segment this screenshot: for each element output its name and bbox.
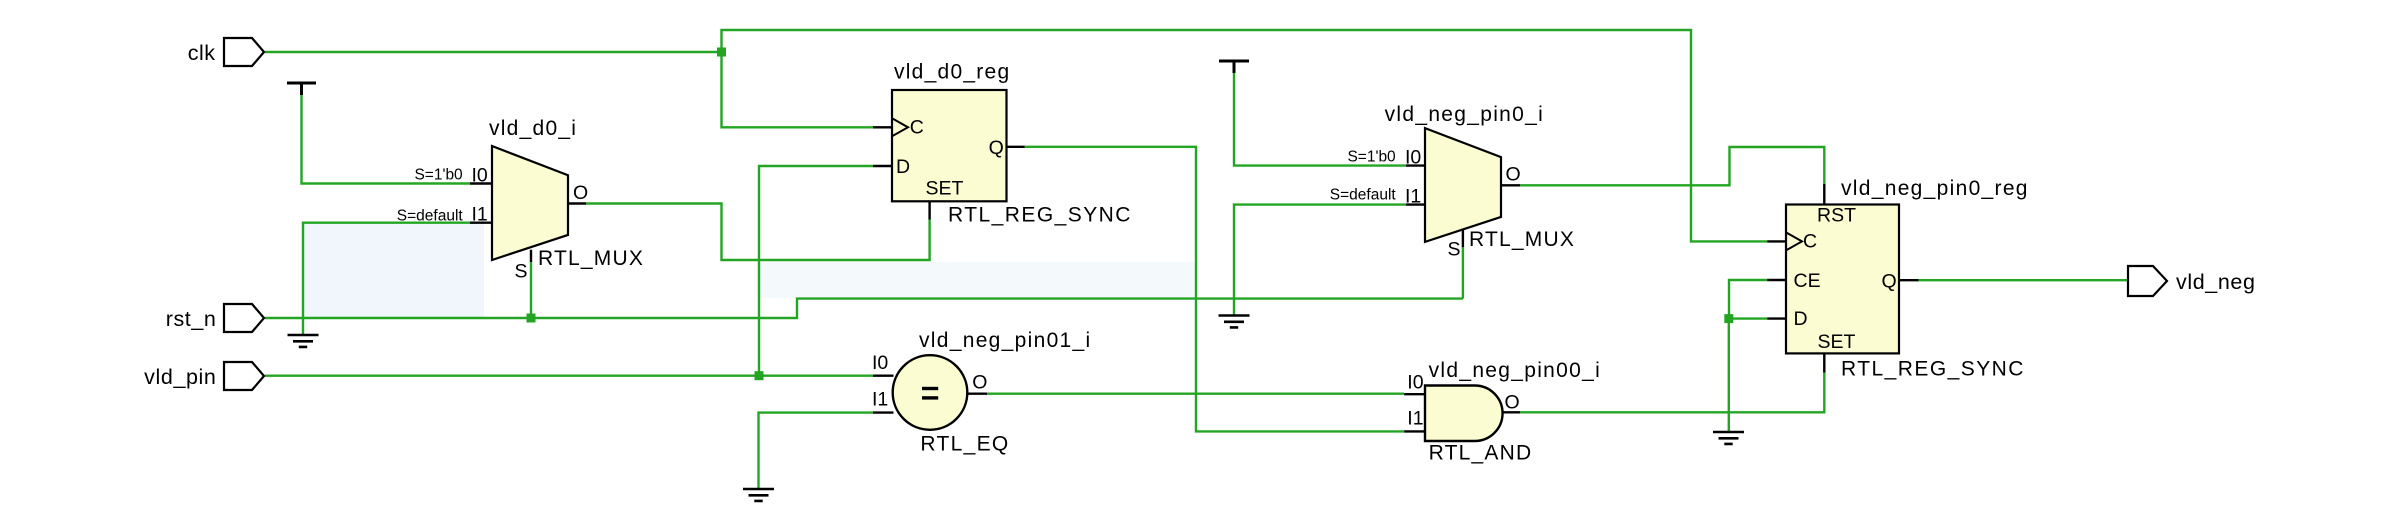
wire: VCC const to mux1 I0 <box>302 95 471 184</box>
svg-text:O: O <box>573 182 588 204</box>
svg-text:Q: Q <box>989 137 1004 159</box>
register U2 clock triangle <box>892 118 908 136</box>
ground symbol below reg2 D junction <box>1713 432 1744 444</box>
wire: AND O to reg2 SET <box>1520 373 1824 413</box>
svg-text:O: O <box>1505 392 1520 414</box>
svg-text:vld_neg_pin01_i: vld_neg_pin01_i <box>919 329 1091 352</box>
junction on clk net at port fanout <box>717 48 726 57</box>
svg-text:I0: I0 <box>472 165 488 187</box>
register U2 vld_d0_reg body <box>892 90 1007 201</box>
register U2 pin stubs <box>873 127 1025 219</box>
svg-text:S=1'b0: S=1'b0 <box>414 167 467 184</box>
svg-text:D: D <box>1794 308 1808 330</box>
mux U1 vld_d0_i body <box>492 146 568 260</box>
svg-text:D: D <box>896 156 910 178</box>
svg-text:vld_pin: vld_pin <box>144 365 216 389</box>
svg-text:S=default: S=default <box>1330 186 1400 203</box>
register U6 pin stubs <box>1767 184 1918 373</box>
background tint patch middle <box>760 262 1195 298</box>
svg-text:I1: I1 <box>1405 186 1421 208</box>
svg-text:RTL_AND: RTL_AND <box>1429 442 1533 465</box>
wire: rst_n net <box>265 247 1463 318</box>
svg-text:I0: I0 <box>1405 147 1421 169</box>
wire: reg2 CE/D to GND <box>1729 280 1768 431</box>
eq gate U3 pin stubs <box>873 376 987 413</box>
svg-text:rst_n: rst_n <box>166 307 217 331</box>
ground symbol below EQ I1 <box>743 489 774 501</box>
mux U5 vld_neg_pin0_i body <box>1425 128 1501 242</box>
svg-text:I0: I0 <box>1407 372 1423 394</box>
svg-text:CE: CE <box>1794 270 1821 292</box>
mux U1 pin stubs <box>470 184 586 263</box>
svg-text:I1: I1 <box>472 204 488 226</box>
junction rst_n to mux1 S <box>527 314 536 323</box>
svg-text:clk: clk <box>188 41 216 65</box>
output port vld_neg <box>2128 266 2256 296</box>
ground symbol below rst_n <box>288 335 319 347</box>
svg-text:I1: I1 <box>1407 408 1423 430</box>
svg-text:O: O <box>1506 164 1521 186</box>
wire: GND const to mux1 I1 <box>303 223 470 334</box>
svg-text:C: C <box>1803 231 1817 253</box>
and gate U4 pin stubs <box>1404 394 1520 431</box>
wire: mux1 O to reg1 SET <box>586 204 930 261</box>
svg-text:I1: I1 <box>872 388 888 410</box>
svg-text:vld_neg_pin00_i: vld_neg_pin00_i <box>1429 359 1601 382</box>
svg-text:S: S <box>515 261 528 283</box>
svg-text:RTL_EQ: RTL_EQ <box>920 432 1009 455</box>
register U6 clock triangle <box>1786 232 1802 250</box>
wire: GND const to mux2 I1 <box>1234 205 1406 315</box>
svg-text:vld_neg_pin0_i: vld_neg_pin0_i <box>1385 103 1545 126</box>
svg-text:vld_neg_pin0_reg: vld_neg_pin0_reg <box>1841 177 2029 200</box>
input port rst_n <box>166 304 264 332</box>
svg-text:S=1'b0: S=1'b0 <box>1347 149 1400 166</box>
svg-text:RTL_MUX: RTL_MUX <box>1469 228 1575 251</box>
power symbol VCC (T-bar) middle <box>1219 61 1249 73</box>
svg-text:Q: Q <box>1882 270 1897 292</box>
svg-text:SET: SET <box>1818 331 1856 353</box>
svg-text:RTL_REG_SYNC: RTL_REG_SYNC <box>1841 357 2025 380</box>
and gate U4 vld_neg_pin00_i body <box>1425 386 1503 442</box>
register U6 vld_neg_pin0_reg body <box>1786 205 1899 354</box>
wire: GND const to EQ I1 <box>759 413 874 488</box>
input port clk <box>188 38 264 66</box>
wire: VCC const to mux2 I0 <box>1234 73 1406 166</box>
wire: EQ O to AND I0 <box>987 393 1404 395</box>
junction reg2 CE/D node <box>1724 314 1733 323</box>
svg-text:RST: RST <box>1817 205 1856 227</box>
svg-text:C: C <box>910 117 924 139</box>
junction vld_pin to reg1 D <box>755 371 764 380</box>
background tint patch left <box>304 224 484 318</box>
mux U5 pin stubs <box>1406 166 1520 248</box>
eq gate U3 vld_neg_pin01_i body <box>893 355 968 430</box>
wire: reg2 Q to vld_neg port <box>1919 279 2129 281</box>
eq gate U3 equals sign <box>922 387 938 400</box>
power symbol VCC (T-bar) top-left <box>287 83 316 95</box>
svg-text:RTL_MUX: RTL_MUX <box>538 247 644 270</box>
wire: reg1 Q to AND I1 <box>1025 147 1405 432</box>
svg-text:SET: SET <box>926 178 964 200</box>
svg-text:vld_d0_i: vld_d0_i <box>489 117 577 140</box>
wire: mux2 O to reg2 RST <box>1520 147 1824 185</box>
wire: clk net <box>265 30 1767 241</box>
input port vld_pin <box>144 362 264 390</box>
ground symbol below mux2 I1 <box>1219 316 1250 328</box>
svg-text:O: O <box>972 371 987 393</box>
svg-text:S=default: S=default <box>397 208 467 225</box>
svg-text:vld_d0_reg: vld_d0_reg <box>894 61 1010 84</box>
svg-text:S: S <box>1448 239 1461 261</box>
wire: vld_pin net <box>265 166 873 376</box>
svg-text:vld_neg: vld_neg <box>2176 270 2256 294</box>
svg-text:I0: I0 <box>872 352 888 374</box>
svg-text:RTL_REG_SYNC: RTL_REG_SYNC <box>948 204 1132 227</box>
